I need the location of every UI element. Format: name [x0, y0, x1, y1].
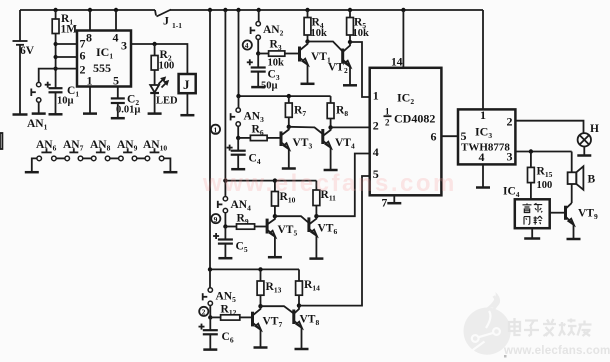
- watermark logo disc: [464, 292, 511, 358]
- resistor R2 100: [151, 44, 174, 85]
- wire VT1 collector to VT2 base: [308, 42, 343, 52]
- svg-text:4: 4: [373, 145, 379, 159]
- svg-text:R9: R9: [237, 213, 249, 227]
- ground VT2 emitter: [343, 84, 357, 87]
- svg-text:0.01µ: 0.01µ: [116, 105, 140, 116]
- svg-text:VT5: VT5: [278, 224, 298, 238]
- capacitor C2 0.01u: [111, 94, 141, 118]
- svg-text:1: 1: [480, 108, 486, 122]
- svg-text:VT9: VT9: [578, 208, 598, 222]
- transistor VT1: [300, 42, 331, 84]
- transistor VT5: [267, 216, 297, 256]
- svg-text:VT8: VT8: [300, 314, 320, 328]
- ground chain right: [163, 171, 177, 174]
- svg-text:3: 3: [507, 150, 513, 164]
- svg-text:6: 6: [80, 49, 86, 63]
- switch AN7: [63, 139, 84, 161]
- ground C3: [251, 86, 265, 89]
- switch AN4: [218, 181, 251, 227]
- watermark pink site text: [202, 170, 457, 197]
- wire IC3 pin3 node: [515, 149, 571, 153]
- node AN5/R12/C6 junction: [208, 315, 212, 319]
- watermark gray url: [503, 344, 610, 357]
- wire block4 supply: [208, 267, 299, 271]
- svg-text:1: 1: [214, 126, 218, 135]
- wire IC1 pin2: [56, 68, 77, 70]
- resistor R14: [296, 269, 320, 305]
- wire IC2 pin6 to IC3 pin5: [441, 135, 458, 137]
- resistor R9: [225, 213, 267, 230]
- svg-text:10k: 10k: [311, 28, 328, 39]
- resistor R7: [285, 96, 306, 127]
- wire VT7 collector to VT8 base: [261, 306, 294, 313]
- wire chain left end: [32, 158, 37, 171]
- ground C2: [111, 117, 125, 120]
- ground VT4 emitter: [324, 169, 338, 172]
- svg-text:LED: LED: [156, 96, 178, 107]
- transistor VT7: [253, 306, 283, 347]
- transistor VT8: [294, 306, 320, 349]
- switch AN3: [231, 96, 265, 138]
- svg-text:J: J: [183, 77, 190, 92]
- svg-text:CD4082: CD4082: [394, 112, 435, 126]
- resistor R4 10k: [304, 10, 327, 42]
- node AN2/R3/C3 junction: [256, 51, 260, 55]
- speaker B: [568, 166, 596, 203]
- svg-text:7: 7: [382, 198, 388, 210]
- transistor VT3: [281, 127, 312, 168]
- svg-text:5: 5: [113, 74, 119, 88]
- wire IC2 pin7 to ground: [382, 195, 395, 209]
- svg-text:1-1: 1-1: [172, 21, 182, 30]
- svg-text:C5: C5: [236, 241, 248, 255]
- wire VT8 output to IC2 pin5: [299, 176, 370, 306]
- watermark gray site name: [509, 318, 592, 336]
- wire IC1 pin6: [56, 56, 77, 58]
- capacitor C5: [213, 227, 248, 258]
- capacitor C1 10u: [45, 82, 80, 114]
- wire IC4 to ground: [531, 228, 533, 238]
- svg-text:R7: R7: [294, 105, 306, 119]
- svg-text:R12: R12: [221, 304, 237, 318]
- ground IC4: [524, 237, 540, 240]
- wire block2 supply: [236, 94, 330, 98]
- svg-text:VT3: VT3: [293, 137, 313, 151]
- svg-text:VT6: VT6: [318, 223, 338, 237]
- svg-text:TWH8778: TWH8778: [461, 142, 510, 154]
- wire IC4 to VT9 base: [550, 212, 566, 214]
- switch AN2: [251, 10, 284, 54]
- wire VT2 output to IC2 pin1: [350, 42, 370, 97]
- svg-text:4: 4: [245, 41, 249, 50]
- switch AN6: [36, 139, 57, 161]
- node VT3 collector junction: [287, 125, 291, 129]
- relay contact J1-1: [155, 10, 182, 31]
- capacitor C3 50u: [247, 54, 280, 92]
- battery 6V: [13, 10, 35, 114]
- ground C1: [49, 113, 63, 116]
- svg-text:100: 100: [537, 180, 553, 191]
- switch AN10: [143, 139, 167, 161]
- svg-text:6: 6: [431, 130, 437, 144]
- ground VT6 emitter: [309, 257, 323, 260]
- wire top supply rail left segment: [20, 9, 155, 11]
- ground VT8 emitter: [295, 348, 309, 351]
- svg-text:2: 2: [202, 308, 206, 317]
- wire IC1 pin1 to ground: [89, 87, 91, 113]
- resistor R3 10k: [258, 39, 299, 69]
- transistor VT2: [328, 42, 350, 85]
- wire IC3 pin4 to ground: [482, 164, 484, 186]
- svg-text:R8: R8: [336, 105, 348, 119]
- wire IC1 pin3 output: [131, 42, 187, 74]
- transistor VT9: [566, 203, 598, 238]
- svg-text:R6: R6: [252, 124, 264, 138]
- wire IC1 pin8 riser: [89, 10, 91, 31]
- resistor R10: [272, 181, 296, 217]
- transistor VT4: [323, 127, 355, 169]
- wire bus B (to third key block): [224, 10, 226, 181]
- node pad 1: [211, 125, 220, 135]
- svg-text:4: 4: [479, 150, 485, 164]
- wire VT3 collector to VT4 base: [289, 127, 323, 134]
- ground lamp: [577, 154, 591, 157]
- svg-text:9: 9: [214, 215, 218, 224]
- node VT5 collector junction: [273, 214, 277, 218]
- ground AN1: [32, 112, 46, 115]
- switch AN8: [90, 139, 111, 161]
- wire IC3 pin2 to lamp: [515, 121, 583, 134]
- resistor R13: [257, 269, 281, 306]
- resistor R11: [313, 181, 336, 217]
- resistor R15 100: [528, 152, 553, 200]
- svg-text:www.elecfans.com: www.elecfans.com: [503, 344, 610, 357]
- ground LED: [148, 112, 162, 115]
- lamp H: [578, 123, 599, 155]
- svg-text:AN1: AN1: [27, 118, 48, 132]
- transistor VT6: [309, 216, 338, 258]
- svg-text:www.elecfans.com: www.elecfans.com: [202, 170, 457, 197]
- svg-text:10k: 10k: [268, 58, 285, 69]
- node AN3/R6/C4 junction: [236, 136, 240, 140]
- wire VT5 collector to VT6 base: [275, 216, 309, 223]
- switch AN1: [27, 69, 56, 132]
- ground IC2 pin7: [387, 202, 401, 205]
- svg-text:1: 1: [385, 107, 390, 117]
- relay coil J box: [179, 74, 196, 114]
- node pins 7,6,2 junctions: [54, 42, 58, 71]
- svg-text:2: 2: [507, 115, 513, 129]
- op IC4 music doorbell box: [503, 186, 550, 229]
- ground C4: [231, 168, 245, 171]
- resistor R12: [210, 304, 252, 321]
- svg-text:10µ: 10µ: [57, 96, 74, 107]
- wire V+ feed down to IC3 pin1: [482, 10, 484, 109]
- svg-text:C6: C6: [222, 331, 234, 345]
- capacitor C6: [199, 317, 234, 348]
- wire IC1 pin4 riser: [115, 10, 117, 31]
- node VT8 collector junction: [297, 303, 301, 307]
- wire bus C (to second key block): [238, 10, 240, 96]
- svg-text:10k: 10k: [353, 28, 370, 39]
- ground VT7 emitter: [254, 346, 268, 349]
- svg-text:C4: C4: [249, 153, 261, 167]
- wire block3 supply: [223, 178, 316, 182]
- svg-text:AN4: AN4: [231, 199, 252, 213]
- svg-text:VT4: VT4: [335, 137, 355, 151]
- wire chain right end: [164, 158, 171, 171]
- svg-text:4: 4: [113, 31, 119, 45]
- node pad 4: [243, 40, 252, 50]
- node VT6 collector junction: [314, 214, 318, 218]
- wire IC1 pin7: [56, 43, 77, 45]
- op IC1 555 box: [77, 31, 131, 88]
- capacitor C4: [227, 138, 261, 169]
- node VT2 collector junction: [348, 40, 352, 44]
- wire IC2 pin14 riser: [391, 10, 403, 69]
- svg-text:R15: R15: [537, 166, 553, 180]
- wire VT6 output to IC2 pin4: [316, 154, 369, 217]
- ground J coil: [180, 114, 194, 117]
- wire IC1 pin5 to C2: [117, 87, 119, 99]
- wire speaker feed: [571, 152, 573, 173]
- svg-text:555: 555: [93, 61, 111, 75]
- svg-text:R13: R13: [266, 281, 282, 295]
- svg-text:R14: R14: [304, 279, 320, 293]
- svg-text:IC4: IC4: [503, 186, 520, 200]
- ground chain left: [25, 171, 39, 174]
- node VT1 collector junction: [305, 39, 309, 43]
- svg-text:AN2: AN2: [263, 24, 284, 38]
- wire switch chain links: [56, 157, 145, 159]
- op IC3 TWH8778 box: [458, 108, 515, 164]
- node rail junctions: [53, 8, 405, 12]
- node VT7 collector junction: [258, 304, 262, 308]
- ground VT5 emitter: [268, 256, 282, 259]
- edge smudge: [0, 133, 2, 149]
- svg-text:3: 3: [121, 39, 127, 53]
- svg-text:1: 1: [373, 89, 379, 103]
- ground IC3 pin4: [476, 186, 490, 189]
- node pad 9: [211, 214, 220, 224]
- resistor R1 1M: [52, 10, 77, 88]
- svg-text:2: 2: [80, 63, 86, 77]
- resistor R8: [327, 96, 348, 127]
- node AN4/R9/C5 junction: [223, 224, 227, 228]
- wire top supply rail right segment: [170, 9, 483, 11]
- ground VT3 emitter: [282, 167, 296, 170]
- svg-text:14: 14: [391, 57, 403, 69]
- switch AN9: [117, 139, 138, 161]
- svg-text:2: 2: [373, 119, 379, 133]
- wire VT4 output to IC2 pin2: [331, 126, 370, 128]
- svg-text:AN5: AN5: [216, 291, 237, 305]
- diode LED: [150, 78, 178, 113]
- svg-text:1M: 1M: [61, 24, 78, 36]
- svg-text:6V: 6V: [20, 45, 35, 57]
- ground C6: [203, 348, 217, 351]
- wire bus A (to fourth key block): [209, 10, 211, 269]
- svg-text:8: 8: [86, 31, 92, 45]
- svg-text:B: B: [588, 174, 596, 186]
- node VT4 collector junction: [328, 125, 332, 129]
- ground IC1 pin1: [83, 112, 97, 115]
- ground C5: [218, 257, 232, 260]
- svg-text:2: 2: [385, 118, 390, 128]
- svg-text:J: J: [163, 14, 169, 28]
- svg-text:100: 100: [159, 61, 175, 72]
- switch AN5: [203, 269, 236, 317]
- ground battery: [13, 113, 28, 116]
- resistor R6: [238, 124, 281, 141]
- resistor R5 10k: [347, 10, 369, 42]
- node pad 2: [199, 307, 208, 317]
- svg-text:VT7: VT7: [263, 316, 283, 330]
- ground VT9 emitter: [567, 238, 581, 241]
- svg-text:R3: R3: [270, 39, 282, 53]
- ground VT1 emitter: [301, 83, 315, 86]
- op IC2 CD4082 box: [370, 68, 442, 196]
- svg-text:AN3: AN3: [244, 111, 265, 125]
- svg-text:1: 1: [87, 74, 93, 88]
- svg-text:H: H: [590, 123, 599, 135]
